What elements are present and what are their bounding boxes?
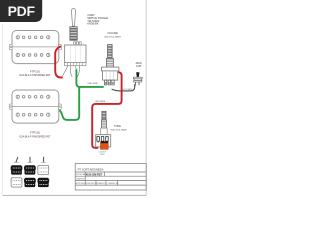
title block row 4 labels	[76, 182, 119, 185]
jack J1 legs	[135, 82, 139, 86]
wire green switch down	[76, 70, 80, 87]
svg-text:FTP201: FTP201	[30, 69, 40, 73]
svg-text:KNOB BK: KNOB BK	[87, 22, 99, 26]
wire green bus to volume pot	[79, 86, 104, 88]
svg-text:GND WIRE: GND WIRE	[87, 83, 98, 85]
pickup P1 pole pieces row 1	[16, 36, 50, 39]
wire red volume to tone	[92, 72, 121, 148]
svg-text:FTP202: FTP202	[30, 131, 40, 135]
pickup P1 right mounting ear	[59, 44, 62, 49]
page border bottom	[3, 194, 147, 196]
legend switch position 1 lever	[14, 157, 19, 163]
legend pos2 pickup active bottom (black)	[24, 178, 36, 187]
svg-text:CUP: CUP	[136, 65, 142, 68]
volume pot VR1 solder lugs	[104, 80, 114, 85]
switch SW1 bottom flange and lugs	[65, 63, 86, 66]
switch SW1 lever	[71, 8, 75, 26]
switch SW1 knurled ferrule	[70, 27, 77, 40]
legend pos1 pickup active (black)	[11, 165, 23, 174]
legend switch position 2 lever	[28, 157, 33, 163]
svg-text:EGA-BLK-F-P/MODIFIED-RST: EGA-BLK-F-P/MODIFIED-RST	[20, 135, 52, 138]
pickup P2 right mounting ear	[59, 104, 62, 109]
svg-text:500-OTOL-KB3H: 500-OTOL-KB3H	[111, 130, 128, 132]
page border right	[145, 0, 147, 196]
switch SW1 body	[65, 45, 86, 63]
legend pos2 pickup active top (black)	[24, 165, 36, 174]
capacitor C1	[100, 141, 108, 149]
pickup P1 body (FTP201)	[12, 31, 59, 64]
pickup P2 body (FTP202)	[12, 90, 59, 123]
switch SW1 lug lead wires	[63, 66, 80, 77]
switch SW1 top lugs	[74, 42, 82, 45]
svg-text:DRAWN BY: DRAWN BY	[76, 178, 86, 181]
svg-text:PDF: PDF	[8, 3, 36, 19]
jack J1 body	[133, 72, 142, 82]
svg-text:500-OVOL-KB3H: 500-OVOL-KB3H	[104, 36, 121, 38]
switch label 3 WAY	[87, 13, 108, 25]
volume pot VR1 knurled shaft	[108, 45, 113, 59]
wire green pickup2 riser	[60, 88, 79, 120]
svg-text:DRAWING NO: DRAWING NO	[108, 182, 120, 185]
volume pot VR1 threaded bushing	[106, 58, 113, 67]
svg-text:250V: 250V	[100, 154, 105, 156]
legend pos3 pickup active (black)	[37, 178, 49, 187]
tone pot VR2 threaded bushing	[102, 120, 107, 128]
svg-text:DRAWN BY: DRAWN BY	[97, 182, 107, 185]
svg-text:TONE: TONE	[114, 125, 121, 128]
legend switch position 3 lever	[41, 157, 46, 163]
tone pot VR2 solder lugs	[97, 137, 108, 142]
svg-text:PT. CORT INDONESIA: PT. CORT INDONESIA	[78, 167, 104, 171]
page border left	[2, 24, 4, 195]
title block frame	[75, 164, 146, 190]
legend pos3 pickup inactive (white)	[37, 165, 49, 174]
svg-text:VOLUME: VOLUME	[107, 32, 118, 35]
wire hot volume to jack	[112, 85, 135, 91]
tone pot VR2 body	[96, 135, 111, 147]
tone pot VR2 nut	[101, 128, 108, 135]
svg-text:HOT WIRE: HOT WIRE	[123, 89, 133, 91]
legend pos1 pickup inactive (white)	[11, 178, 23, 187]
volume pot VR1 body	[101, 67, 119, 80]
svg-text:EGA-BLK-F-P/MODIFIED-RST: EGA-BLK-F-P/MODIFIED-RST	[20, 74, 52, 77]
pickup P1 left mounting ear	[9, 44, 12, 49]
pickup P1 pole pieces row 2	[16, 53, 50, 56]
svg-text:GND WIRE: GND WIRE	[95, 101, 106, 103]
pickup P2 pole pieces row 2	[16, 113, 50, 116]
PDF badge	[0, 0, 42, 22]
wire red pickup1 to switch	[55, 47, 62, 78]
tone pot VR2 knurled shaft	[102, 111, 106, 120]
svg-text:KX5 OM RST: KX5 OM RST	[86, 173, 102, 177]
pickup P2 left mounting ear	[9, 104, 12, 109]
pickup P2 pole pieces row 1	[16, 95, 50, 98]
